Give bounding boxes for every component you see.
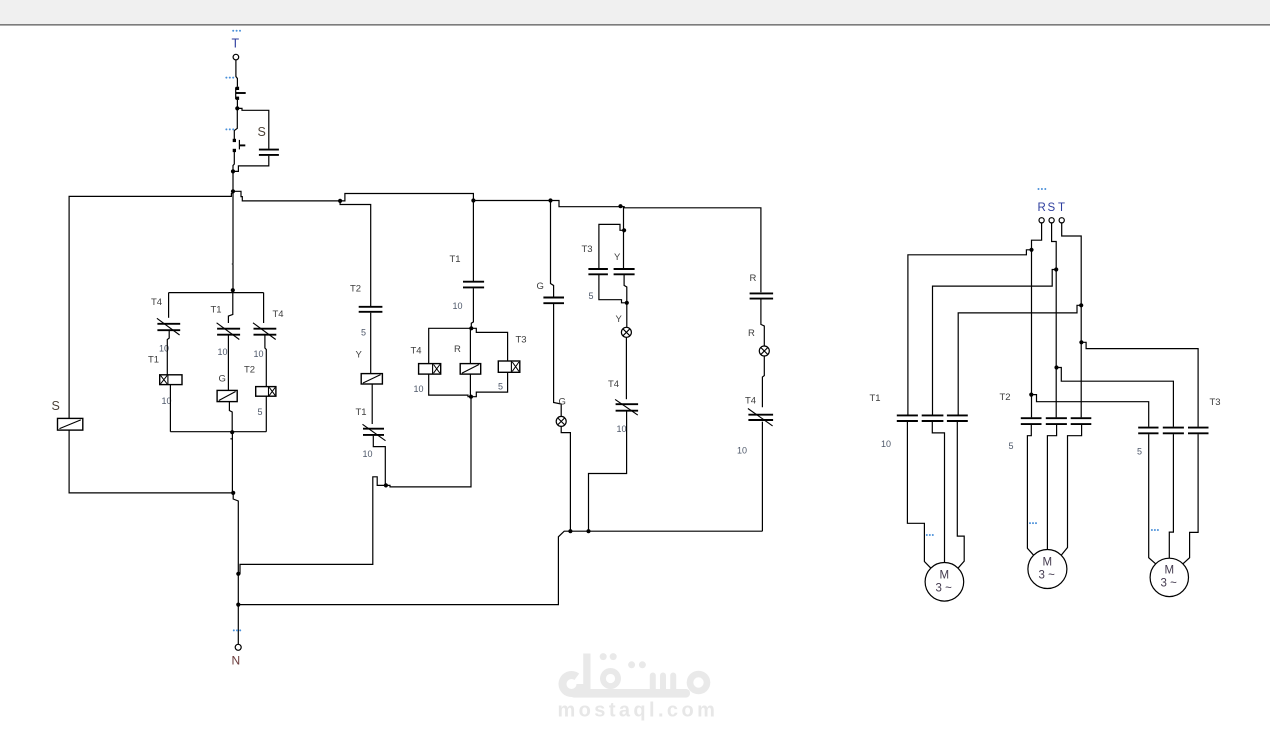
junction box bottom: [469, 395, 473, 399]
wire hook to return bus: [238, 477, 386, 574]
wire bus segment 2: [340, 194, 473, 201]
junction T3Y top: [622, 228, 626, 232]
svg-text:10: 10: [737, 445, 747, 455]
wire box mid: [469, 328, 471, 363]
wire feed S to T3 contactor: [1057, 368, 1174, 427]
wire T2 phase2 to motor: [1047, 425, 1056, 550]
svg-text:M: M: [1043, 557, 1053, 569]
junction G return: [568, 529, 572, 533]
junction: [548, 198, 552, 202]
wire T1 phase1 to motor: [907, 422, 931, 568]
wire T3 phase3 to motor: [1183, 434, 1198, 564]
motor M1: [925, 563, 964, 602]
wire right sub-branch: [263, 293, 265, 323]
wire box left arm: [429, 328, 472, 363]
wire R branch return: [761, 422, 763, 532]
lamp R: [759, 346, 769, 356]
contactor T1 main contacts: [897, 415, 968, 421]
svg-text:T4: T4: [151, 297, 162, 308]
tiny mark: [230, 438, 232, 440]
junction group1 bottom: [230, 430, 234, 434]
dots motor3: [1151, 529, 1159, 531]
wire from T terminal: [236, 60, 238, 87]
svg-text:10: 10: [881, 439, 891, 449]
contact T3 (NO): [588, 269, 608, 274]
svg-text:10: 10: [254, 349, 264, 359]
svg-text:R: R: [750, 273, 757, 284]
wire feed R to T1 contactor: [908, 250, 1032, 415]
wire T3 sub-branch: [599, 224, 624, 268]
svg-text:T4: T4: [745, 395, 756, 406]
wire bus segment 3: [473, 200, 550, 202]
group1 bottom bus: [170, 431, 266, 433]
tiny mark: [232, 263, 234, 265]
svg-text:3 ~: 3 ~: [1039, 570, 1056, 582]
svg-text:T2: T2: [1000, 392, 1011, 403]
coil Y: [361, 374, 382, 384]
timed contact T4 (NC timed) R branch: [748, 409, 773, 426]
junction R feed1: [1029, 248, 1033, 252]
svg-text:T1: T1: [148, 355, 159, 366]
dots on wire: [225, 77, 234, 79]
svg-text:T2: T2: [350, 284, 361, 295]
wire bus segment 4: [551, 201, 621, 207]
junction Y return: [384, 483, 388, 487]
svg-text:5: 5: [589, 291, 594, 301]
branch G: wire from bus: [551, 201, 554, 297]
svg-text:T: T: [232, 37, 240, 51]
svg-text:10: 10: [218, 347, 228, 357]
svg-text:3 ~: 3 ~: [936, 583, 953, 595]
svg-text:3 ~: 3 ~: [1161, 578, 1178, 590]
svg-text:10: 10: [617, 424, 627, 434]
wire box mid bottom: [469, 374, 471, 397]
terminal T circle: [233, 54, 239, 60]
wire T2 phase1 to motor: [1027, 425, 1033, 555]
wire: [169, 385, 171, 432]
wire to G lamp: [554, 304, 562, 416]
svg-text:10: 10: [453, 301, 463, 311]
svg-text:T3: T3: [1210, 397, 1221, 408]
wire down from T1 contact: [373, 436, 385, 486]
branch Y: wire from bus: [340, 201, 371, 306]
wire S coil return: [69, 430, 233, 493]
svg-text:R: R: [748, 328, 755, 339]
dots: [225, 128, 234, 130]
junction: [618, 204, 622, 208]
coil T3 (timer): [498, 361, 520, 372]
node junction: [231, 189, 235, 193]
wire feed R to T3 contactor: [1031, 395, 1148, 427]
timed contact T4 (NC timed) right: [253, 323, 276, 340]
junction: [471, 198, 475, 202]
svg-text:R: R: [454, 344, 461, 355]
svg-text:mostaql.com: mostaql.com: [558, 700, 719, 722]
group1 top bus: [169, 290, 264, 292]
wire T3 phase1 to motor: [1149, 434, 1156, 564]
junction T3Y bottom: [625, 301, 629, 305]
lamp Y: [621, 327, 631, 337]
svg-text:R: R: [1038, 202, 1046, 214]
svg-text:G: G: [219, 374, 226, 385]
junction R feed2: [1029, 393, 1033, 397]
svg-text:Y: Y: [356, 350, 363, 361]
junction T feed1: [1079, 303, 1083, 307]
wire main down: [233, 493, 238, 645]
wire below Y lamp: [625, 337, 627, 399]
motor M2: [1028, 550, 1067, 589]
svg-text:G: G: [559, 397, 566, 408]
wire box right arm: [471, 328, 507, 361]
terminal S circle: [1049, 218, 1054, 223]
junction box top: [469, 326, 473, 330]
timed contact T4 (NC timed) Y branch: [615, 399, 638, 415]
terminal N circle: [235, 644, 241, 650]
wire phase T main: [1062, 223, 1082, 418]
motor M3: [1150, 558, 1188, 596]
dots motor2: [1029, 522, 1037, 524]
junction: [338, 199, 342, 203]
contact Y (NO): [614, 269, 635, 274]
svg-text:10: 10: [414, 384, 424, 394]
junction: [235, 106, 239, 110]
wire phase R main: [1032, 223, 1042, 418]
wire T3 phase2 to motor: [1169, 434, 1173, 558]
wire: [236, 100, 238, 109]
coil T2 (timer): [256, 387, 276, 397]
svg-text:T1: T1: [450, 254, 461, 265]
wire S branch return: [233, 156, 269, 172]
contact S (NO): [259, 150, 279, 155]
wire T1 phase3 to motor: [957, 422, 964, 568]
pushbutton NO start: [233, 139, 246, 152]
svg-text:T3: T3: [516, 335, 527, 346]
svg-text:M: M: [940, 570, 950, 582]
svg-text:T2: T2: [244, 365, 255, 376]
wire: [265, 396, 267, 432]
wire top bus right: [233, 191, 340, 201]
wire: [233, 152, 234, 171]
dots above T: [232, 30, 241, 32]
wire feed S to T1 contactor: [933, 270, 1057, 415]
junction T feed2: [1079, 340, 1083, 344]
wire feed T to T1 contactor: [958, 305, 1081, 414]
wire to Y lamp: [626, 303, 628, 328]
coil S: [58, 418, 83, 430]
branch T3-Y: wire from bus: [621, 207, 624, 231]
coil T4 (timer): [419, 364, 441, 375]
wire T2 phase3 to motor: [1061, 425, 1081, 555]
main vertical to S return node: [231, 432, 233, 493]
wire main below stop: [234, 110, 237, 140]
svg-text:5: 5: [258, 407, 263, 417]
junction S feed2: [1054, 365, 1058, 369]
contact T2 (NO): [359, 307, 383, 312]
wire left sub-branch: [168, 293, 170, 318]
junction lower1: [236, 572, 240, 576]
wire to R lamp: [761, 299, 764, 346]
junction lower2: [236, 603, 240, 607]
timed contact T1 (NC timed) mid: [217, 323, 241, 340]
dots near N: [233, 629, 241, 631]
svg-text:5: 5: [361, 328, 366, 338]
junction group1 top: [231, 288, 235, 292]
pushbutton NC stop: [236, 87, 246, 100]
top toolbar band: [0, 0, 1270, 24]
svg-text:T1: T1: [870, 393, 881, 404]
wire down to coil box: [471, 288, 473, 328]
svg-text:N: N: [232, 654, 241, 668]
svg-text:M: M: [1165, 565, 1175, 577]
wire Y sub: [624, 230, 627, 302]
wire: [227, 336, 229, 391]
wire box left bottom: [429, 374, 471, 397]
wire: [265, 336, 266, 387]
svg-text:T1: T1: [356, 407, 367, 418]
svg-text:10: 10: [363, 449, 373, 459]
svg-text:S: S: [1048, 202, 1056, 214]
junction S return: [231, 491, 235, 495]
coil R: [460, 364, 481, 375]
wire T1 phase2 to motor: [932, 422, 944, 563]
wire bus segment 5 to R branch: [621, 207, 761, 293]
svg-text:5: 5: [1009, 441, 1014, 451]
wire: [371, 384, 373, 424]
timed contact T4 (NC timed) left: [157, 318, 180, 335]
wire below R lamp: [762, 356, 764, 407]
wire feed T to T3 contactor: [1081, 342, 1198, 427]
wire box right bottom: [471, 372, 508, 396]
wire return bus to box: [386, 397, 471, 487]
lamp G: [556, 416, 566, 426]
svg-text:S: S: [52, 399, 60, 413]
terminal T circle: [1059, 218, 1064, 223]
svg-text:Y: Y: [614, 252, 621, 263]
svg-text:Y: Y: [616, 314, 623, 325]
wire: [370, 313, 372, 374]
wire T3 sub return: [599, 275, 626, 303]
contactor T3 main contacts: [1138, 428, 1208, 434]
svg-text:T1: T1: [211, 305, 222, 316]
contact T1 (NO): [463, 282, 484, 288]
terminal R circle: [1039, 218, 1044, 223]
branch T1: wire from bus: [472, 201, 474, 282]
wire to main node: [232, 171, 234, 191]
wire mid sub-branch: [228, 293, 232, 323]
bottom lamp bus: [238, 531, 762, 604]
wire: [167, 331, 169, 375]
svg-text:5: 5: [1137, 447, 1142, 457]
svg-text:S: S: [258, 125, 266, 139]
svg-text:T3: T3: [582, 244, 593, 255]
contact R (NO): [750, 293, 774, 298]
svg-text:T4: T4: [411, 346, 422, 357]
svg-text:G: G: [537, 281, 544, 292]
wire phase S main: [1052, 223, 1057, 418]
dots above RST: [1038, 188, 1047, 190]
svg-text:T4: T4: [273, 309, 284, 320]
group1: vertical from node: [232, 191, 234, 290]
junction S feed1: [1054, 267, 1058, 271]
svg-text:T: T: [1058, 202, 1065, 214]
wire Y branch return: [589, 412, 627, 532]
wire left bus to S coil branch: [69, 193, 233, 419]
svg-text:5: 5: [498, 382, 503, 392]
junction: [231, 169, 235, 173]
contact G (NO): [543, 298, 564, 304]
junction Y return: [586, 529, 590, 533]
timed contact T1 (NC timed): [363, 424, 386, 440]
wire to S seal branch: [239, 108, 269, 148]
dots motor1: [926, 534, 934, 536]
svg-text:T4: T4: [608, 379, 619, 390]
wire G lamp return: [561, 426, 570, 531]
coil T1 (timer): [160, 375, 182, 385]
contactor T2 main contacts: [1021, 418, 1092, 424]
watermark mostaql logo: [558, 653, 719, 721]
coil G: [217, 390, 237, 401]
wire: [229, 402, 232, 432]
